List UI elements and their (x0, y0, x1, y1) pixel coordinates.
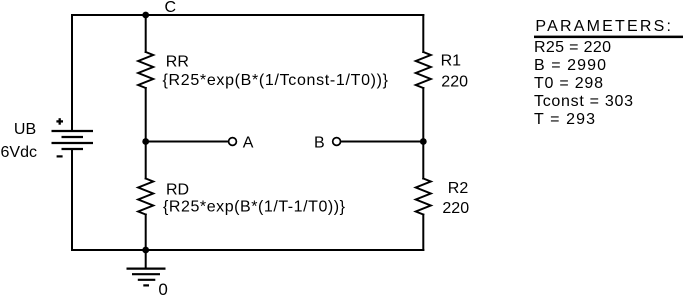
resistor R1 (416, 52, 431, 88)
svg-text:UB: UB (14, 121, 36, 138)
ground 0 bars (127, 269, 166, 286)
wire top rail C (72, 14, 423, 16)
junction bottom (142, 247, 149, 254)
wire ground stub (145, 250, 147, 269)
terminal A circle (229, 138, 237, 146)
svg-text:0: 0 (158, 280, 167, 297)
junction node A (142, 138, 149, 145)
wire right branch bottom stub (422, 215, 424, 251)
wire right branch top stub (422, 15, 424, 52)
wire bottom rail (72, 249, 423, 251)
svg-text:RD: RD (166, 181, 189, 198)
resistor RR (138, 52, 153, 88)
svg-text:6Vdc: 6Vdc (1, 144, 37, 161)
svg-text:A: A (243, 135, 254, 152)
wire middle branch between RR and RD (145, 88, 147, 179)
parameters underline (534, 36, 683, 39)
wire right branch between R1 and R2 (422, 88, 424, 179)
battery plus sign (56, 118, 63, 125)
svg-text:220: 220 (441, 74, 468, 91)
svg-text:T0 = 298: T0 = 298 (534, 75, 603, 92)
battery minus sign (57, 155, 63, 157)
svg-text:R2: R2 (448, 180, 469, 197)
svg-text:PARAMETERS:: PARAMETERS: (535, 18, 671, 35)
terminal B circle (333, 138, 341, 146)
junction node C (142, 12, 149, 19)
wire left branch upper (71, 15, 73, 130)
svg-text:B = 2990: B = 2990 (534, 57, 606, 74)
svg-text:220: 220 (442, 200, 469, 217)
junction node B right (420, 138, 427, 145)
wire middle branch bottom stub (145, 215, 147, 251)
wire node A horizontal (146, 141, 229, 143)
resistor R2 (416, 179, 431, 215)
svg-text:{R25*exp(B*(1/Tconst-1/T0))}: {R25*exp(B*(1/Tconst-1/T0))} (163, 72, 389, 89)
svg-text:{R25*exp(B*(1/T-1/T0))}: {R25*exp(B*(1/T-1/T0))} (163, 198, 346, 215)
wire middle branch top stub (145, 15, 147, 52)
svg-text:Tconst = 303: Tconst = 303 (534, 93, 633, 110)
svg-text:B: B (314, 135, 325, 152)
svg-text:T = 293: T = 293 (534, 111, 595, 128)
wire left branch lower (71, 149, 73, 250)
svg-text:R1: R1 (441, 53, 462, 70)
svg-text:R25 = 220: R25 = 220 (534, 39, 611, 56)
resistor RD (138, 179, 153, 215)
svg-text:C: C (165, 0, 177, 16)
battery UB plates (52, 131, 94, 149)
svg-text:RR: RR (166, 54, 189, 71)
wire node B horizontal (341, 141, 424, 143)
